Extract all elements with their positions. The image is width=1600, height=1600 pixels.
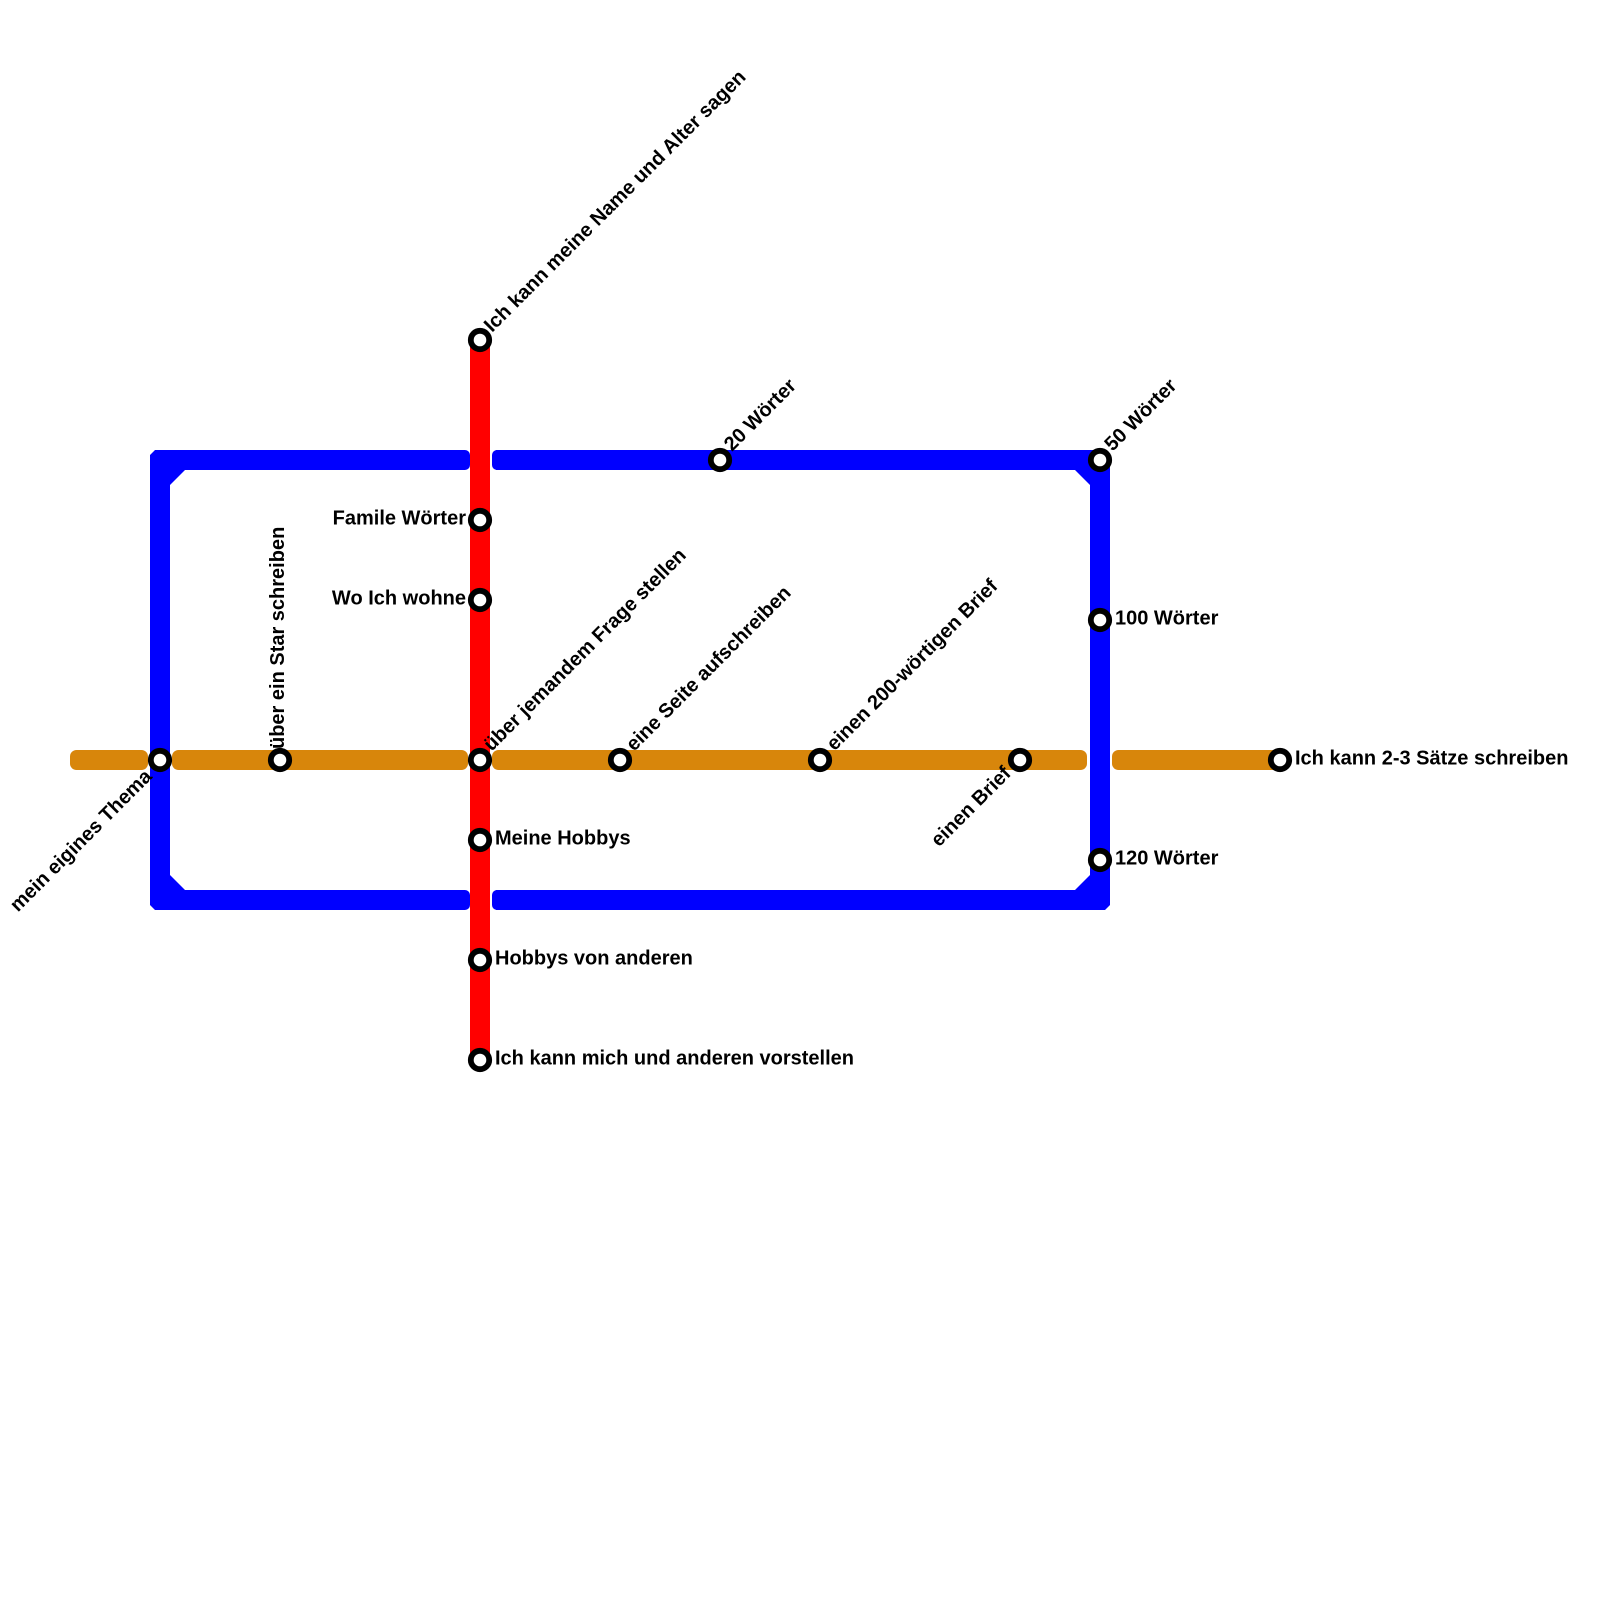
svg-text:Wo Ich wohne: Wo Ich wohne (332, 588, 466, 610)
svg-text:Ich kann 2-3 Sätze schreiben: Ich kann 2-3 Sätze schreiben (1295, 748, 1568, 770)
svg-text:Ich kann mich und anderen vors: Ich kann mich und anderen vorstellen (495, 1048, 854, 1070)
svg-text:Meine Hobbys: Meine Hobbys (495, 828, 631, 850)
svg-text:über ein Star schreiben: über ein Star schreiben (267, 527, 289, 749)
svg-text:Hobbys von anderen: Hobbys von anderen (495, 948, 693, 970)
svg-text:100 Wörter: 100 Wörter (1115, 608, 1219, 630)
svg-text:Famile Wörter: Famile Wörter (333, 508, 467, 530)
svg-text:120 Wörter: 120 Wörter (1115, 848, 1219, 870)
